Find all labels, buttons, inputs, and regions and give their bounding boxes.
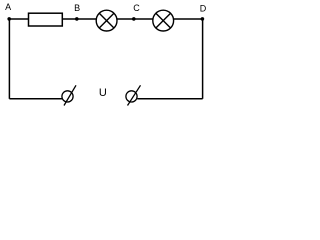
svg-text:U: U: [99, 87, 107, 99]
svg-text:D: D: [200, 3, 207, 13]
svg-text:C: C: [133, 3, 140, 13]
svg-text:A: A: [5, 2, 11, 12]
svg-text:B: B: [74, 3, 80, 13]
